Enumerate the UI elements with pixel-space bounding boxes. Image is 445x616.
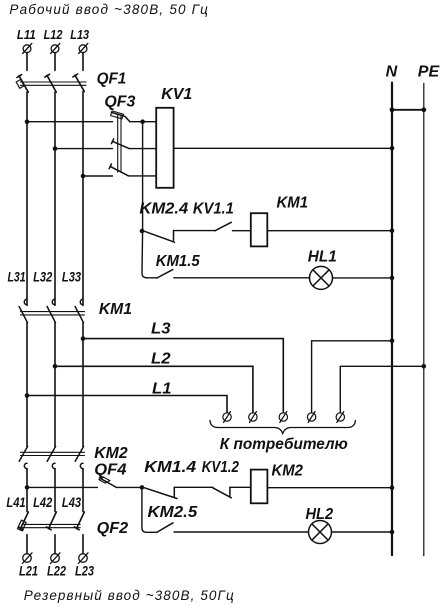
contactor KM2 pole 1 [19,446,27,468]
contact KM2.4 [145,231,175,243]
contact KV1.2 [213,487,232,498]
wire QF1 pole2 down [54,92,56,305]
svg-text:KM1: KM1 [277,195,309,212]
svg-text:PE: PE [418,64,441,81]
terminal L23 [78,553,88,564]
node row3 [140,485,145,490]
wire KM2 pole3 down [82,469,84,512]
wire KM2.5 to HL2 [174,531,309,533]
svg-text:QF4: QF4 [94,461,126,478]
wire KM1.4 to KV1.2 [174,486,213,488]
svg-text:К потребителю: К потребителю [220,436,348,453]
lamp HL1 [310,266,333,289]
wire QF2 pole1 to L21 [26,535,28,554]
contactor coil KM2 [251,470,268,504]
svg-text:HL1: HL1 [308,249,337,266]
wire L2 [55,366,253,412]
wire QF3 pole3 to KV1 [129,175,157,177]
wire KM2 pole2 down [54,469,56,512]
wire KM1.5 to HL1 [174,277,310,279]
wire phase C to QF3 [83,175,112,177]
terminal L21 [22,553,32,564]
svg-text:KM2.4: KM2.4 [139,201,188,218]
KM1 linkage bar [21,312,85,315]
contactor KM1 pole 3 [75,299,83,322]
svg-text:L43: L43 [62,495,82,510]
wire phase A to QF3 [27,121,112,123]
wire QF3 pole2 to KV1 [129,148,156,150]
svg-text:L32: L32 [33,270,53,285]
brace consumers [210,421,355,434]
wire row2 lead [147,277,157,279]
wire KM1 pole2 down [54,323,56,447]
svg-text:N: N [386,64,398,81]
wire L13 to QF1 [82,53,84,71]
wire QF1 pole1 down [26,92,28,305]
wire N-PE bridge [392,109,424,111]
wire KM1 pole1 down [26,323,28,447]
breaker QF2 pole 1 [18,512,29,531]
bus N [391,83,393,555]
terminal out L3 [279,412,287,423]
breaker QF1 pole 3 [73,74,84,92]
node KV1-N [390,146,395,151]
contactor coil KM1 [251,213,267,246]
KM2 linkage bar [21,452,85,455]
node PE tap [422,364,427,369]
svg-text:KM1.4: KM1.4 [144,459,196,476]
node bridge-N [390,107,395,112]
svg-text:KM1: KM1 [99,301,132,318]
node L1 tap [25,393,30,398]
wire N branch [312,341,392,413]
node row4-N [390,530,395,535]
contactor KM2 pole 3 [75,446,83,468]
wire KV1 to N [174,147,392,149]
wire HL1 to N [333,277,393,279]
wire QF2 pole2 to L22 [54,535,56,554]
breaker QF2 pole 2 [46,512,56,530]
bus PE [423,83,425,555]
wire QF1 pole3 down [82,92,84,306]
node N tap [390,339,395,344]
terminal out L2 [249,412,257,423]
node phase A tap [25,119,30,124]
node row1 [140,229,145,234]
contact KM1.5 [157,270,173,278]
node phase C tap [81,174,86,179]
terminal out N [307,412,315,423]
terminal L22 [50,553,60,564]
contact KV1.1 [215,222,232,231]
svg-text:L3: L3 [151,321,171,338]
svg-text:L12: L12 [44,27,63,42]
svg-text:L33: L33 [62,270,82,285]
svg-text:L22: L22 [47,564,66,579]
node row2-N [390,276,395,281]
breaker QF2 pole 3 [74,512,84,530]
wire phase B to QF3 [55,148,112,150]
QF1 linkage bar [20,82,86,85]
svg-text:L23: L23 [75,564,94,579]
wire L12 to QF1 [54,53,56,71]
wire L1 [27,396,227,413]
wire KV1.1 to KM1 coil [233,230,251,232]
wire HL2 to N [332,531,393,533]
svg-text:L42: L42 [33,495,53,510]
relay coil KV1 [156,108,173,188]
svg-text:L13: L13 [70,27,89,42]
svg-text:KM2: KM2 [272,463,303,480]
svg-text:L11: L11 [17,27,36,42]
wire QF3 pole1 to KV1 [130,121,156,123]
svg-text:KV1.1: KV1.1 [193,201,234,218]
svg-text:KM2: KM2 [94,445,127,462]
wire tap to QF4 [27,486,97,488]
lamp HL2 [309,521,332,544]
terminal L13 [79,44,88,54]
svg-text:KM2.5: KM2.5 [148,504,199,521]
wire KM1 coil to N [267,230,392,232]
contact KM2.5 [157,523,174,533]
contactor KM2 pole 2 [47,446,55,468]
wire KV1.2 to KM2 coil [230,486,251,488]
wire row4 vertical [142,487,157,532]
wire QF4 to KM1.4 [117,486,142,488]
svg-text:KM1.5: KM1.5 [156,253,201,270]
node reserve control tap [25,485,30,490]
wire PE branch [340,366,424,412]
svg-text:L21: L21 [19,564,38,579]
node phase B tap [53,146,58,151]
contactor KM1 pole 1 [19,299,27,322]
node L3 tap [81,336,86,341]
svg-text:QF1: QF1 [97,71,127,88]
svg-text:L31: L31 [8,270,26,285]
terminal L12 [51,44,60,54]
svg-text:QF2: QF2 [97,520,129,537]
terminal L11 [23,44,32,54]
svg-text:L2: L2 [151,351,171,368]
QF2 linkage bar [22,524,80,527]
wire KM2 pole1 down [26,469,28,512]
contact KM1.4 [145,487,178,498]
node bridge-PE [421,107,426,112]
breaker QF3 pole 1 [111,111,130,122]
svg-text:Рабочий ввод ~380В, 50 Гц: Рабочий ввод ~380В, 50 Гц [9,2,208,17]
breaker QF1 pole 1 [16,75,28,93]
wire control vertical [142,122,147,278]
QF3 linkage bar [118,115,121,172]
node row1-N [390,228,395,233]
breaker QF3 pole 3 [109,164,128,176]
contactor KM1 pole 2 [47,299,55,322]
node row3-N [390,485,395,490]
svg-text:QF3: QF3 [104,94,135,111]
breaker QF4 [99,477,117,487]
breaker QF1 pole 2 [45,74,56,92]
node L2 tap [53,364,58,369]
wire KM2.4 to KV1.1 [174,230,215,232]
svg-text:L41: L41 [6,495,25,510]
svg-text:KV1: KV1 [161,86,192,103]
terminal out PE [336,412,344,423]
wire L3 [83,339,283,413]
terminal out L1 [223,412,231,423]
wire QF2 pole3 to L23 [82,535,84,554]
wire L11 to QF1 [26,53,28,71]
svg-text:Резервный ввод ~380В, 50Гц: Резервный ввод ~380В, 50Гц [24,588,234,603]
wire KM1 pole3 down [82,323,84,447]
svg-text:KV1.2: KV1.2 [202,459,239,476]
node control tap [140,119,145,124]
wire KM2 coil to N [267,487,392,489]
breaker QF3 pole 2 [112,139,130,149]
